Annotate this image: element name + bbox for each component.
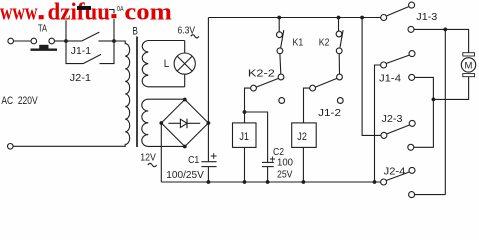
wire: rail down to J2-3 — [362, 18, 381, 136]
wire: motor node up to J1-4 output — [415, 77, 434, 99]
svg-text:J2-3: J2-3 — [382, 113, 403, 125]
svg-text:J2: J2 — [297, 131, 307, 143]
svg-text:K2-2: K2-2 — [248, 68, 275, 80]
svg-text:J1-2: J1-2 — [318, 107, 341, 119]
junction: motor bottom branch — [432, 98, 436, 102]
wire: pushbutton to node A — [55, 40, 67, 42]
capacitor C1 plates — [201, 162, 216, 182]
svg-text:L: L — [164, 58, 169, 70]
contact J1-4 — [381, 51, 415, 81]
contact K1 chain: rail junction — [277, 16, 281, 20]
svg-text:100/25V: 100/25V — [166, 169, 204, 181]
wire: fuse branch — [66, 10, 114, 42]
diode D inside bridge — [168, 119, 200, 129]
contact K1 — [277, 18, 284, 54]
svg-text:12V: 12V — [140, 152, 156, 164]
contact J2-1 (parallel branch) — [66, 41, 114, 64]
svg-text:25V: 25V — [277, 168, 293, 180]
motor M — [461, 53, 475, 77]
wire: AC neutral bottom lead — [13, 145, 122, 147]
wire: C2 branch — [245, 112, 268, 162]
svg-text:100: 100 — [277, 157, 293, 169]
wire: DC+ vertical bus (top rail feed) — [207, 18, 209, 162]
svg-text:J2-1: J2-1 — [70, 72, 92, 84]
svg-text:J1: J1 — [239, 131, 249, 143]
transformer B secondary 12V winding — [142, 99, 185, 146]
contact J1-2 (changeover) — [310, 74, 343, 103]
junction: C2 on rail — [266, 180, 270, 184]
lamp L — [174, 53, 195, 74]
contact J1-1 (on main line) — [66, 32, 114, 41]
node A (live input junction) — [64, 39, 68, 43]
C2 polarity + — [270, 156, 275, 161]
wire: AC live lead from plug to pushbutton — [14, 40, 32, 42]
label ~ (6.3V ac) — [191, 35, 199, 38]
contact K2 — [336, 18, 343, 54]
junction: J1-4 feed on rail — [373, 180, 377, 184]
junction: J2-3 feed on rail — [360, 16, 364, 20]
capacitor C2 plates — [262, 162, 274, 182]
fuse 0A body — [77, 6, 91, 10]
transformer B core — [136, 37, 138, 148]
watermark period 2 — [111, 13, 117, 19]
top DC rail — [208, 17, 380, 19]
bottom DC rail — [161, 181, 380, 183]
svg-text:0A: 0A — [117, 4, 124, 13]
contact K2-2 (changeover) — [251, 74, 285, 103]
contact K2 chain: rail junction — [337, 16, 341, 20]
contact J1-3 — [381, 2, 415, 32]
wire: J1-2 to relay J2 coil — [304, 88, 310, 123]
junction: C2 tap — [243, 110, 247, 114]
lamp L leads — [184, 41, 186, 87]
C1 polarity + — [211, 153, 217, 159]
bridge rectifier diamond — [161, 100, 208, 147]
wire: vertical J1-3/J2-4 tie — [444, 29, 446, 194]
plug pin X2 (bottom) — [8, 144, 14, 150]
node: bridge AC bottom vertex — [183, 145, 187, 149]
svg-text:J1-4: J1-4 — [379, 73, 401, 85]
svg-text:C1: C1 — [188, 154, 199, 166]
junction: J2 on rail — [302, 180, 306, 184]
wire: DC- from left vertex down to bottom rail — [160, 123, 162, 182]
wire: J1-4 feed from bottom rail — [375, 65, 381, 182]
node: bridge DC+ right vertex — [207, 121, 211, 125]
plug pin X1 (top) — [8, 38, 14, 44]
node: bridge AC top vertex — [183, 98, 187, 102]
svg-text:M: M — [465, 61, 473, 72]
junction: motor top branch — [443, 28, 447, 32]
svg-text:J1-1: J1-1 — [71, 45, 91, 57]
relay coil J1 — [233, 123, 257, 147]
wire: J2-4 output up to tie line — [415, 194, 446, 196]
wire: J2 coil to bottom rail — [302, 147, 304, 182]
wire: K1 to K2-2 — [279, 54, 282, 74]
svg-text:B: B — [132, 26, 138, 38]
node B (to transformer primary) — [112, 39, 116, 43]
svg-text:TA: TA — [38, 23, 47, 34]
svg-text:wwwdzifuucom: wwwdzifuucom — [0, 0, 172, 26]
junction: J1 on rail — [243, 180, 247, 184]
relay coil J2 — [292, 123, 317, 147]
wire: J1-3 output to motor top node — [414, 29, 469, 53]
svg-text:J2-4: J2-4 — [384, 166, 406, 178]
contact J2-3 — [381, 120, 415, 150]
contact J2-4 — [381, 167, 415, 197]
wire: K2-2 to relay J1 coil — [245, 88, 251, 123]
wire: K2 to J1-2 — [338, 54, 340, 74]
wire: motor bottom to node — [433, 77, 468, 100]
wire: J1 coil to bottom rail — [244, 147, 246, 182]
svg-text:AC 220V: AC 220V — [1, 95, 38, 107]
pushbutton TA actuator bar — [31, 45, 58, 50]
svg-text:K2: K2 — [319, 36, 330, 48]
wire: motor node down to J2-3 output — [414, 99, 434, 147]
label ~ (12V ac) — [148, 163, 157, 166]
junction: C1 bottom on rail — [207, 180, 211, 184]
watermark period 1 — [38, 14, 44, 20]
pushbutton TA contacts — [31, 38, 55, 44]
node: bridge DC- left vertex — [159, 121, 163, 125]
transformer B primary winding — [114, 41, 130, 146]
transformer B secondary 6.3V winding — [142, 41, 185, 87]
svg-text:K1: K1 — [293, 36, 304, 48]
svg-text:J1-3: J1-3 — [416, 11, 437, 23]
